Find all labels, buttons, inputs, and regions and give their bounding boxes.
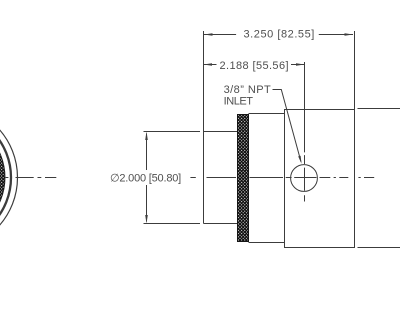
- front view knurl ring: [0, 118, 5, 238]
- rear boss rectangle: [204, 132, 238, 224]
- dia 2.000 extension lines: [144, 132, 201, 224]
- inlet vertical centerline: [304, 62, 306, 202]
- arrow leader: [298, 156, 301, 164]
- extension line left: [203, 31, 205, 132]
- centerline front view: [6, 177, 57, 179]
- arrow dia2.000 up: [145, 132, 148, 141]
- svg-text:3.250 [82.55]: 3.250 [82.55]: [244, 29, 315, 41]
- extension line right: [354, 31, 356, 110]
- arrow 2.188 right: [296, 63, 305, 66]
- arrow 2.188 left: [204, 63, 213, 66]
- centerline side view: [190, 177, 374, 179]
- arrow 3.250 right: [345, 33, 354, 36]
- right part edges (cut off): [358, 109, 400, 248]
- arrow 3.250 left: [204, 33, 213, 36]
- svg-text:3/8” NPT: 3/8” NPT: [224, 84, 272, 96]
- front view mid circle: [0, 112, 11, 244]
- leader line NPT inlet: [273, 90, 302, 162]
- middle section edges: [249, 114, 285, 243]
- arrow dia2.000 down: [145, 215, 148, 224]
- svg-text:2.188 [55.56]: 2.188 [55.56]: [220, 60, 289, 72]
- dim line 3.250: [204, 34, 353, 36]
- dia 2.000 dim vertical line: [146, 134, 148, 222]
- knurl strip side view: [238, 115, 249, 242]
- dim line 2.188: [204, 64, 305, 66]
- svg-text:∅2.000 [50.80]: ∅2.000 [50.80]: [110, 172, 181, 184]
- front view outer circle: [0, 105, 18, 250]
- svg-text:INLET: INLET: [224, 95, 254, 107]
- main body rectangle: [285, 110, 355, 248]
- inlet hole circle: [291, 165, 318, 192]
